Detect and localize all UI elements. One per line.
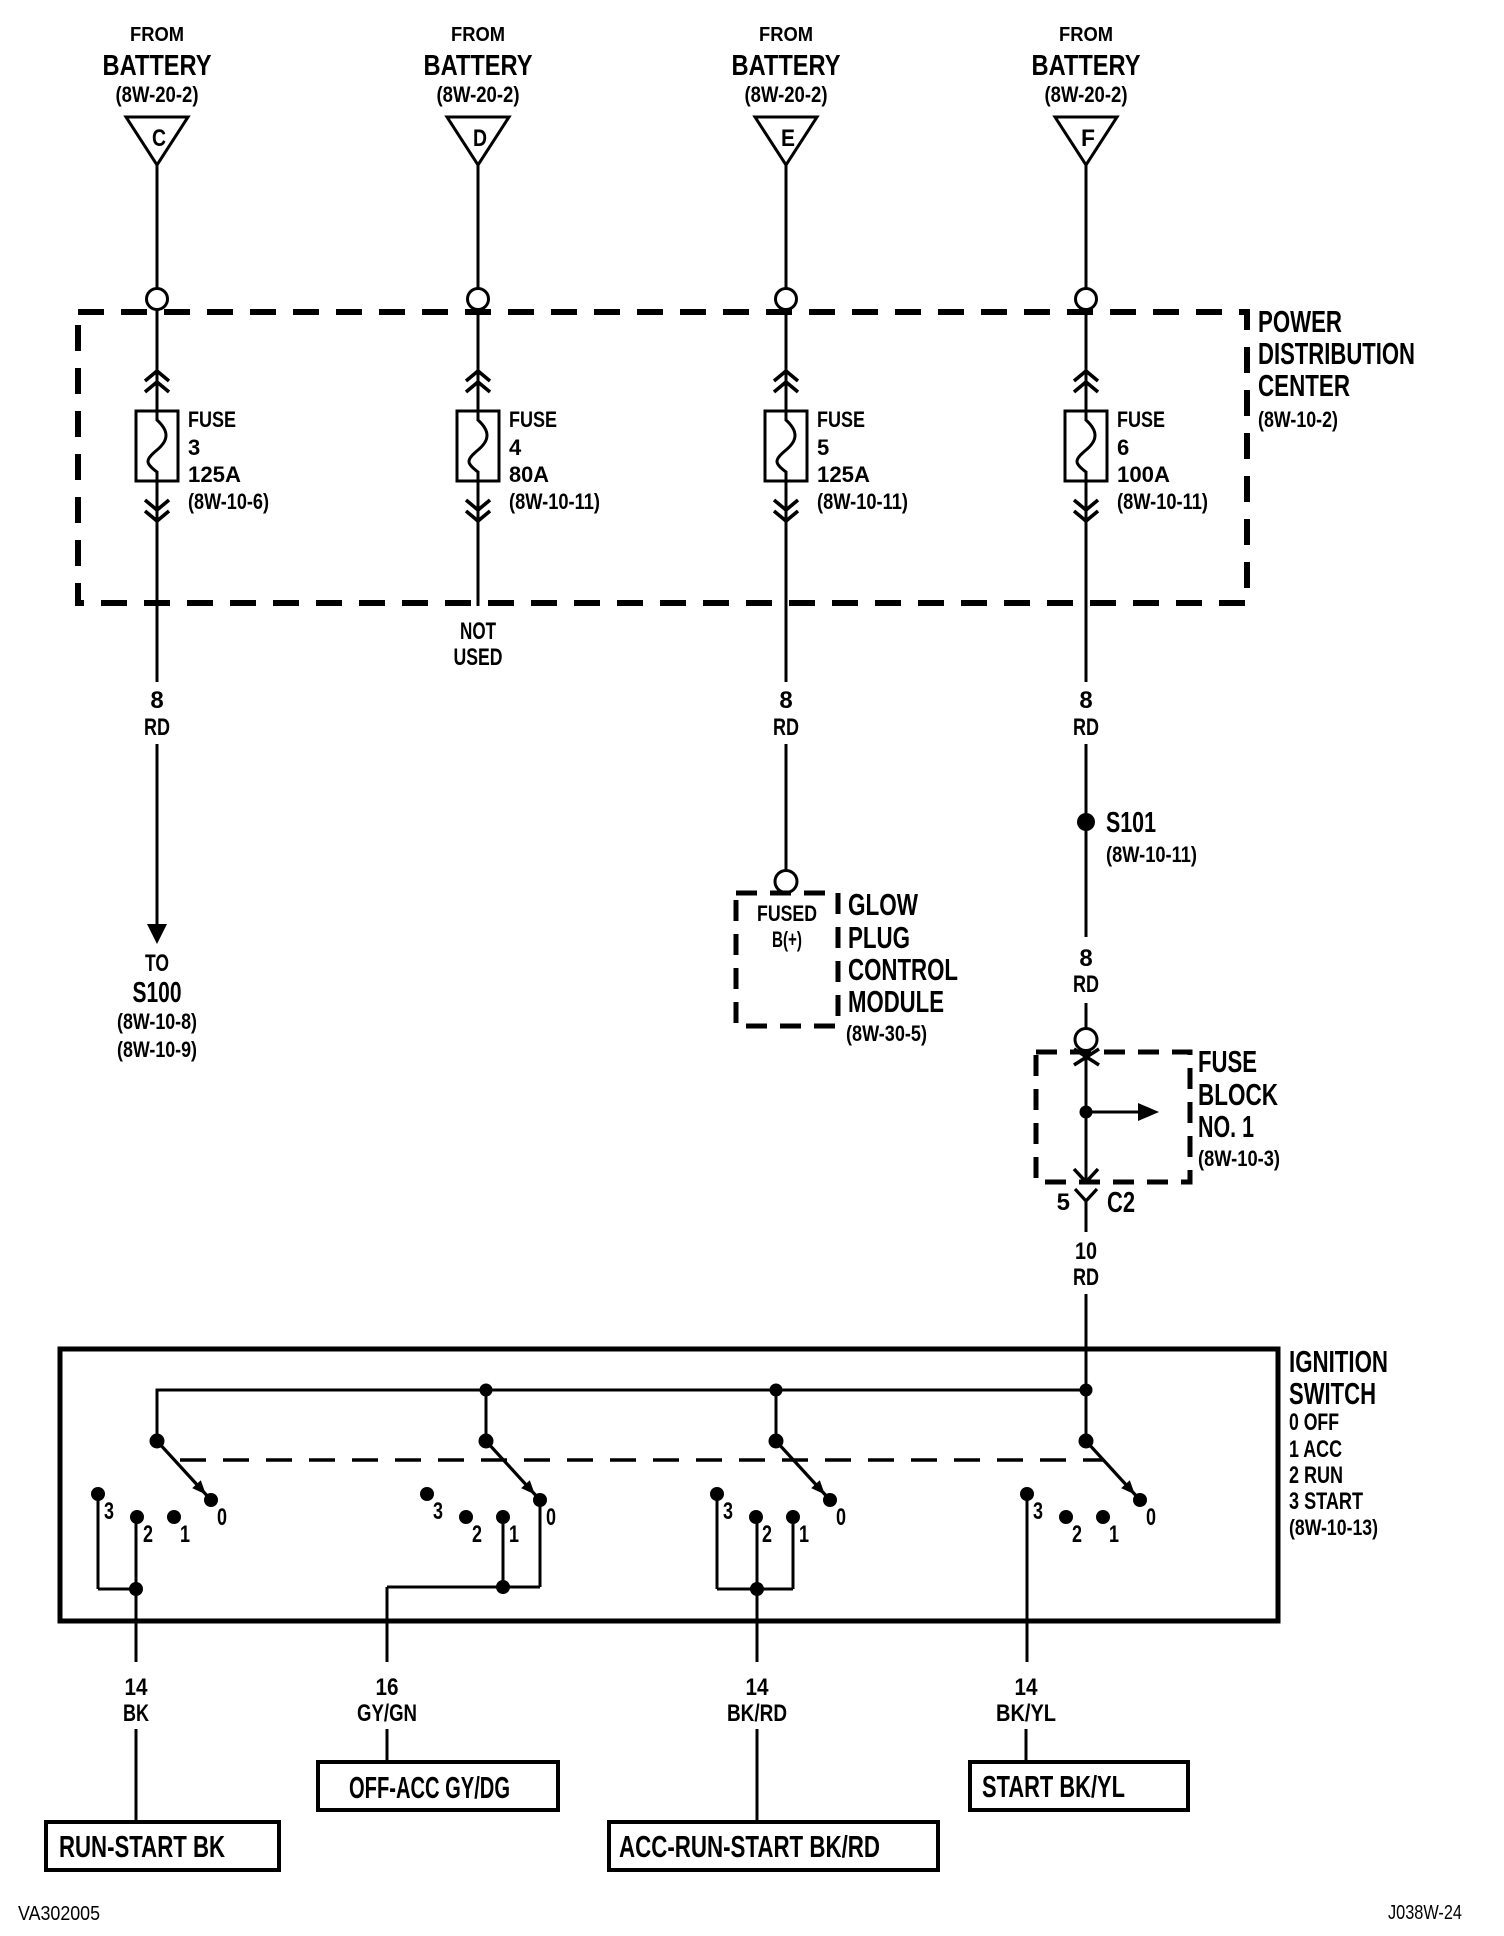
svg-text:0: 0 <box>836 1504 846 1531</box>
svg-text:2: 2 <box>472 1521 482 1548</box>
svg-text:F: F <box>1081 125 1095 152</box>
svg-text:S101: S101 <box>1106 807 1156 839</box>
svg-text:IGNITION: IGNITION <box>1289 1344 1388 1379</box>
svg-text:(8W-10-11): (8W-10-11) <box>509 489 600 514</box>
svg-text:START BK/YL: START BK/YL <box>982 1769 1125 1804</box>
svg-text:FUSE: FUSE <box>188 407 236 432</box>
svg-text:(8W-10-8): (8W-10-8) <box>117 1009 197 1034</box>
svg-text:POWER: POWER <box>1258 304 1342 339</box>
svg-text:BATTERY: BATTERY <box>1032 50 1141 82</box>
svg-text:2 RUN: 2 RUN <box>1289 1462 1343 1489</box>
svg-text:BATTERY: BATTERY <box>103 50 212 82</box>
svg-text:B(+): B(+) <box>772 927 802 952</box>
svg-text:(8W-20-2): (8W-20-2) <box>116 82 199 107</box>
svg-text:0: 0 <box>1146 1504 1156 1531</box>
svg-text:2: 2 <box>762 1521 772 1548</box>
svg-text:8: 8 <box>1079 945 1092 972</box>
svg-text:(8W-10-9): (8W-10-9) <box>117 1037 197 1062</box>
svg-text:NOT: NOT <box>460 618 496 645</box>
svg-text:8: 8 <box>1079 687 1092 714</box>
svg-text:5: 5 <box>817 435 829 460</box>
svg-text:FROM: FROM <box>130 24 184 46</box>
svg-text:FUSE: FUSE <box>1117 407 1165 432</box>
svg-text:125A: 125A <box>817 462 870 487</box>
svg-text:6: 6 <box>1117 435 1129 460</box>
svg-text:(8W-30-5): (8W-30-5) <box>846 1021 927 1046</box>
svg-text:3: 3 <box>188 435 200 460</box>
svg-text:(8W-10-11): (8W-10-11) <box>1106 842 1197 867</box>
svg-text:3: 3 <box>433 1498 443 1525</box>
svg-text:0: 0 <box>217 1504 227 1531</box>
svg-text:0 OFF: 0 OFF <box>1289 1409 1339 1436</box>
svg-text:VA302005: VA302005 <box>18 1903 100 1925</box>
svg-text:DISTRIBUTION: DISTRIBUTION <box>1258 336 1415 371</box>
svg-text:BATTERY: BATTERY <box>732 50 841 82</box>
svg-text:SWITCH: SWITCH <box>1289 1376 1376 1411</box>
svg-text:MODULE: MODULE <box>848 984 944 1019</box>
svg-text:14: 14 <box>746 1674 770 1701</box>
svg-text:FUSED: FUSED <box>757 901 817 926</box>
svg-text:J038W-24: J038W-24 <box>1388 1902 1462 1924</box>
svg-text:RD: RD <box>1073 714 1099 741</box>
svg-text:100A: 100A <box>1117 462 1170 487</box>
svg-text:PLUG: PLUG <box>848 920 910 955</box>
svg-text:NO. 1: NO. 1 <box>1198 1109 1254 1144</box>
svg-text:C: C <box>152 125 166 152</box>
svg-text:80A: 80A <box>509 462 549 487</box>
svg-text:OFF-ACC GY/DG: OFF-ACC GY/DG <box>349 1770 510 1805</box>
svg-text:(8W-20-2): (8W-20-2) <box>437 82 520 107</box>
svg-text:RD: RD <box>1073 1264 1099 1291</box>
svg-text:8: 8 <box>150 687 163 714</box>
svg-text:14: 14 <box>125 1674 149 1701</box>
svg-text:D: D <box>473 125 487 152</box>
svg-text:BK/RD: BK/RD <box>727 1700 787 1727</box>
svg-text:(8W-20-2): (8W-20-2) <box>745 82 828 107</box>
svg-text:RD: RD <box>773 714 799 741</box>
svg-text:4: 4 <box>509 435 522 460</box>
svg-text:BK/YL: BK/YL <box>996 1700 1056 1727</box>
svg-text:FROM: FROM <box>451 24 505 46</box>
svg-text:RUN-START BK: RUN-START BK <box>59 1829 225 1864</box>
svg-text:0: 0 <box>546 1504 556 1531</box>
svg-text:2: 2 <box>143 1521 153 1548</box>
svg-text:ACC-RUN-START BK/RD: ACC-RUN-START BK/RD <box>619 1829 880 1864</box>
svg-text:FROM: FROM <box>759 24 813 46</box>
svg-text:1: 1 <box>509 1521 519 1548</box>
svg-text:(8W-10-13): (8W-10-13) <box>1289 1515 1378 1540</box>
svg-text:5: 5 <box>1057 1189 1070 1216</box>
svg-text:FUSE: FUSE <box>817 407 865 432</box>
svg-text:BLOCK: BLOCK <box>1198 1077 1278 1112</box>
svg-text:(8W-20-2): (8W-20-2) <box>1045 82 1128 107</box>
svg-text:16: 16 <box>376 1674 399 1701</box>
svg-text:GLOW: GLOW <box>848 887 919 922</box>
svg-text:BATTERY: BATTERY <box>424 50 533 82</box>
svg-text:3: 3 <box>104 1498 114 1525</box>
svg-text:3 START: 3 START <box>1289 1488 1363 1515</box>
svg-text:USED: USED <box>454 644 503 671</box>
svg-text:CENTER: CENTER <box>1258 368 1350 403</box>
svg-text:1: 1 <box>1109 1521 1119 1548</box>
svg-text:TO: TO <box>145 950 169 977</box>
svg-text:FUSE: FUSE <box>509 407 557 432</box>
svg-text:S100: S100 <box>133 977 182 1009</box>
svg-text:3: 3 <box>1033 1498 1043 1525</box>
svg-text:C2: C2 <box>1107 1187 1135 1219</box>
svg-text:14: 14 <box>1015 1674 1039 1701</box>
svg-text:1: 1 <box>799 1521 809 1548</box>
svg-text:(8W-10-11): (8W-10-11) <box>817 489 908 514</box>
svg-text:1: 1 <box>180 1521 190 1548</box>
svg-text:BK: BK <box>123 1700 149 1727</box>
svg-text:3: 3 <box>723 1498 733 1525</box>
svg-text:2: 2 <box>1072 1521 1082 1548</box>
svg-text:GY/GN: GY/GN <box>357 1700 417 1727</box>
svg-text:FROM: FROM <box>1059 24 1113 46</box>
svg-text:10: 10 <box>1075 1238 1097 1265</box>
svg-text:CONTROL: CONTROL <box>848 952 958 987</box>
svg-text:(8W-10-11): (8W-10-11) <box>1117 489 1208 514</box>
svg-text:1 ACC: 1 ACC <box>1289 1436 1342 1463</box>
svg-text:FUSE: FUSE <box>1198 1044 1257 1079</box>
svg-text:125A: 125A <box>188 462 241 487</box>
svg-text:8: 8 <box>779 687 792 714</box>
svg-text:(8W-10-3): (8W-10-3) <box>1198 1146 1280 1171</box>
svg-text:RD: RD <box>1073 971 1099 998</box>
svg-text:E: E <box>781 125 795 152</box>
svg-text:RD: RD <box>144 714 170 741</box>
svg-text:(8W-10-6): (8W-10-6) <box>188 489 269 514</box>
svg-text:(8W-10-2): (8W-10-2) <box>1258 407 1338 432</box>
